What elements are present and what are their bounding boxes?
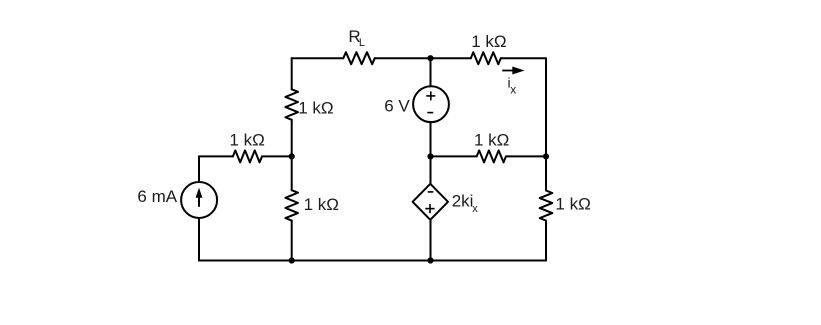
svg-text:L: L <box>359 37 365 49</box>
svg-text:2ki: 2ki <box>452 192 474 211</box>
svg-text:x: x <box>472 203 478 215</box>
svg-text:1 kΩ: 1 kΩ <box>471 32 506 51</box>
svg-text:x: x <box>510 83 516 97</box>
svg-text:1 kΩ: 1 kΩ <box>229 131 264 150</box>
svg-text:1 kΩ: 1 kΩ <box>555 194 590 213</box>
svg-text:1 kΩ: 1 kΩ <box>298 98 333 117</box>
svg-text:1 kΩ: 1 kΩ <box>474 130 509 149</box>
svg-text:6 V: 6 V <box>384 97 410 116</box>
svg-text:1 kΩ: 1 kΩ <box>304 195 339 214</box>
svg-text:6 mA: 6 mA <box>137 187 177 206</box>
